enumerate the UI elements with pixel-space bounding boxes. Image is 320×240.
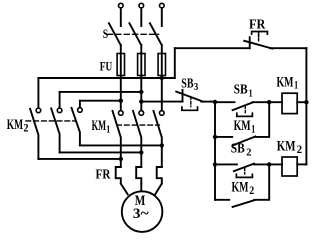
svg-text:1: 1 [251, 124, 255, 136]
junction bus/SB2 [213, 162, 217, 166]
svg-text:KM: KM [7, 117, 23, 133]
wire KM2 pole1 riser [37, 78, 39, 108]
contactor KM2 pole3 contact [78, 108, 83, 113]
terminal L1 [119, 3, 124, 8]
svg-text:S: S [103, 26, 108, 41]
pushbutton SB2 left [215, 163, 237, 165]
wire KM2 pole3 riser [79, 101, 81, 108]
junction SB2/KM2aux [267, 162, 271, 166]
terminal L3 [160, 3, 165, 8]
wire control feed from phase2 to SB3 [141, 101, 182, 103]
pushbutton SB2 blade [234, 164, 254, 172]
junction phase2/busB [139, 90, 143, 94]
svg-text:1: 1 [106, 125, 110, 136]
contactor KM2 pole2 contact [57, 108, 62, 113]
relay contact FR blade [244, 41, 272, 49]
wire SB1 to coil KM1 [253, 101, 282, 103]
svg-text:FR: FR [249, 18, 266, 33]
SB3 actuator dashed [190, 97, 192, 107]
KM1 linkage dashed [117, 124, 160, 126]
junction phase2/control feed [139, 99, 143, 103]
wire L3 drop [161, 8, 163, 26]
motor lead W [155, 184, 162, 195]
auxiliary contact KM2 right riser [254, 164, 269, 199]
svg-text:KM: KM [92, 118, 107, 134]
junction U [119, 157, 123, 161]
motor M circle [122, 191, 163, 232]
junction V [139, 150, 143, 154]
contactor KM1 pole2 contact [139, 111, 144, 116]
svg-text:2: 2 [249, 185, 254, 197]
wire KM2 pole2 riser [59, 92, 61, 108]
svg-text:SB: SB [234, 83, 248, 98]
svg-text:3~: 3~ [133, 206, 149, 222]
top rail right of FR [271, 47, 307, 49]
FR actuator bracket [252, 32, 268, 35]
wire SB3 to bus [201, 101, 215, 103]
junction phase1/busC [119, 99, 123, 103]
svg-text:SB: SB [231, 142, 245, 157]
svg-text:KM: KM [234, 118, 251, 134]
pushbutton SB3 tick [182, 90, 184, 102]
control bus vertical [214, 102, 216, 200]
coil KM1 [282, 93, 297, 113]
SB2 actuator dashed [244, 168, 246, 174]
svg-text:KM: KM [232, 179, 249, 195]
svg-text:2: 2 [297, 144, 303, 156]
wire control left vertical [174, 48, 176, 78]
junction rail/coil KM1 [304, 100, 308, 104]
svg-text:SB: SB [181, 76, 193, 91]
thermal relay FR heater 2 [136, 167, 141, 184]
wire pole3 through fuse down to KM1 contact [161, 45, 163, 111]
thermal relay FR heater 3 [157, 167, 162, 184]
switch S pole 1 blade [109, 23, 121, 45]
svg-text:1: 1 [294, 80, 298, 92]
wire KM2 out V [60, 151, 142, 153]
wire KM2 out U [38, 158, 120, 160]
wire bus B phase2 to KM2 pole2 [60, 91, 142, 93]
contactor KM1 pole1 contact [119, 111, 124, 116]
junction bus/KM1aux [213, 135, 217, 139]
FR actuator stem [258, 32, 260, 37]
auxiliary contact KM1 right riser [255, 102, 269, 137]
fuse FU1 [117, 54, 124, 76]
svg-text:2: 2 [246, 148, 251, 159]
svg-text:FR: FR [96, 167, 112, 182]
switch S linkage dashed [108, 33, 159, 35]
right rail [305, 48, 307, 164]
top rail left of FR [175, 47, 250, 49]
fuse FU2 [138, 54, 145, 76]
wire bus A phase3 to KM2 pole1 [38, 77, 174, 79]
junction bus/SB1 [213, 100, 217, 104]
contactor KM2 pole1 contact [36, 108, 41, 113]
wire SB2 to coil KM2 [254, 163, 282, 165]
svg-text:FU: FU [100, 58, 113, 73]
coil KM2 [282, 157, 297, 176]
switch S pole 2 blade [129, 23, 141, 45]
auxiliary contact KM1 blade [233, 137, 255, 146]
switch S pole 3 blade [150, 23, 162, 45]
svg-text:1: 1 [249, 88, 253, 99]
svg-text:3: 3 [194, 82, 199, 93]
SB1 button cap [237, 113, 253, 116]
svg-text:2: 2 [24, 122, 29, 134]
thermal relay FR heater 1 [116, 167, 121, 184]
pushbutton SB1 blade [233, 102, 253, 110]
wire L1 drop [120, 8, 122, 26]
SB1 actuator dashed [244, 106, 246, 113]
wire pole1 through fuse down to KM1 contact [120, 45, 122, 111]
motor lead V [140, 184, 142, 192]
svg-text:KM: KM [277, 74, 294, 90]
svg-text:KM: KM [277, 138, 296, 154]
contactor KM1 pole3 contact [160, 111, 165, 116]
junction phase3/busA [160, 76, 164, 80]
auxiliary contact KM2 left [215, 199, 229, 201]
fuse FU3 [158, 54, 165, 76]
wire L2 drop [140, 8, 142, 26]
terminal L2 [139, 3, 144, 8]
SB2 button cap [236, 174, 252, 177]
auxiliary contact KM1 left [215, 136, 232, 138]
pushbutton SB1 left [215, 101, 235, 103]
wire pole2 through fuse down to KM1 contact [140, 45, 142, 111]
FR actuator dashed [258, 38, 260, 42]
wire coil KM1 to rail [297, 101, 306, 103]
relay contact FR tick [249, 37, 251, 48]
KM2 linkage dashed [26, 120, 76, 122]
auxiliary contact KM2 blade [233, 200, 255, 207]
wire coil KM2 to rail [297, 163, 306, 165]
SB3 button cap [182, 107, 198, 110]
wire KM2 out W [80, 144, 162, 146]
junction SB1/KM1aux [267, 100, 271, 104]
junction W [160, 143, 164, 147]
pushbutton SB3 blade [176, 92, 201, 101]
wire bus C phase1 to KM2 pole3 [80, 100, 121, 102]
motor lead U [121, 184, 128, 195]
